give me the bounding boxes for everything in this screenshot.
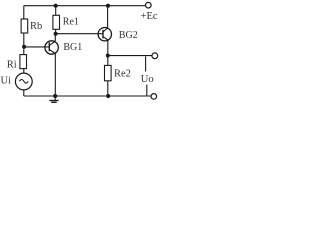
wire BG2 emitter vertical	[107, 40, 109, 55]
node BG2 collector on top rail	[106, 4, 110, 8]
wire base BG1	[24, 46, 49, 48]
terminal +Ec circle	[146, 2, 152, 8]
svg-text:+Ec: +Ec	[141, 11, 158, 22]
transistor Q2 BG2 emitter arrowhead	[106, 38, 108, 40]
transistor Q2 BG2 circle	[98, 28, 111, 41]
resistor Rb	[21, 19, 28, 33]
wire bottom rail	[24, 95, 151, 97]
transistor Q1 BG1 emitter arrowhead	[53, 52, 55, 54]
terminal output upper circle	[152, 53, 158, 59]
resistor Re2	[105, 65, 112, 80]
transistor Q1 BG1 collector diagonal	[49, 41, 55, 45]
svg-text:Ui: Ui	[1, 76, 12, 87]
wire output to terminal	[108, 55, 152, 57]
wire base BG2	[56, 33, 103, 35]
svg-text:Rb: Rb	[30, 21, 42, 32]
wire left column top (Rb top lead)	[23, 6, 25, 19]
wire Re1 bottom lead	[55, 29, 57, 34]
wire Re1 top lead	[55, 6, 57, 16]
wire Ui bottom lead	[23, 90, 25, 96]
node Re1 top on top rail	[54, 4, 58, 8]
transistor Q1 BG1 emitter diagonal with arrow	[49, 49, 55, 53]
transistor Q2 BG2 collector diagonal	[103, 28, 108, 32]
svg-text:Uo: Uo	[141, 74, 154, 85]
wire Ri bottom lead	[23, 69, 25, 73]
wire Ri top lead	[23, 47, 25, 55]
wire BG2 collector vertical	[107, 6, 109, 28]
transistor Q2 BG2 emitter diagonal with arrow	[103, 37, 108, 41]
node base of BG1 (junction dot)	[22, 45, 26, 49]
Uo reference line lower segment	[146, 85, 148, 96]
terminal output lower circle	[151, 94, 157, 100]
svg-text:BG1: BG1	[63, 42, 82, 53]
node BG1 emitter on bottom rail	[53, 94, 57, 98]
node Re2 bottom on bottom rail	[106, 94, 110, 98]
wire BG1 emitter vertical	[54, 54, 56, 96]
wire BG1 collector vertical	[54, 34, 56, 41]
node Re1 bottom / BG1 collector / BG2 base	[54, 32, 58, 36]
node output (BG2 emitter / Re2 top)	[106, 54, 110, 58]
sine symbol inside Ui	[19, 79, 28, 83]
svg-text:Re2: Re2	[114, 69, 131, 80]
transistor Q1 BG1 base bar	[48, 42, 50, 51]
transistor Q1 BG1 circle	[45, 41, 58, 54]
wire Re2 top lead	[107, 56, 109, 66]
ground bar 2	[51, 101, 57, 103]
resistor Ri	[20, 55, 27, 69]
wire top rail	[24, 5, 146, 7]
source Ui (sine source circle)	[15, 73, 32, 90]
svg-text:Ri: Ri	[7, 59, 17, 70]
Uo reference line upper segment	[145, 56, 147, 71]
wire Re2 bottom lead	[107, 81, 109, 96]
svg-text:Re1: Re1	[63, 16, 79, 27]
ground bar 1	[49, 100, 58, 102]
ground stub	[54, 96, 56, 100]
transistor Q2 BG2 base bar	[102, 30, 104, 39]
resistor Re1	[53, 15, 60, 29]
wire Rb bottom lead	[23, 33, 25, 47]
svg-text:BG2: BG2	[119, 30, 138, 41]
